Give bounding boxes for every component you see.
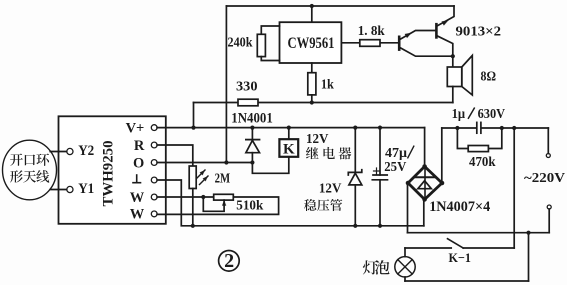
svg-text:2: 2 — [224, 250, 234, 272]
svg-text:12V: 12V — [319, 181, 342, 196]
svg-text:470k: 470k — [469, 154, 496, 169]
svg-text:1N4001: 1N4001 — [231, 110, 272, 126]
svg-text:1μ: 1μ — [452, 107, 466, 122]
svg-text:Y2: Y2 — [78, 143, 94, 159]
svg-text:K: K — [283, 142, 295, 158]
svg-text:630V: 630V — [478, 107, 506, 122]
svg-text:CW9561: CW9561 — [288, 35, 335, 52]
svg-text:1N4007×4: 1N4007×4 — [429, 199, 490, 215]
svg-text:W: W — [130, 207, 145, 223]
svg-text:TWH9250: TWH9250 — [101, 141, 117, 207]
svg-text:1. 8k: 1. 8k — [358, 24, 385, 39]
svg-text:R: R — [134, 138, 145, 154]
svg-text:8Ω: 8Ω — [481, 70, 497, 85]
svg-text:25V: 25V — [384, 160, 406, 175]
svg-text:O: O — [133, 155, 144, 171]
svg-text:Y1: Y1 — [78, 181, 94, 197]
svg-text:1k: 1k — [321, 77, 334, 92]
svg-text:240k: 240k — [228, 35, 253, 50]
svg-text:W: W — [130, 190, 145, 206]
svg-text:~220V: ~220V — [524, 171, 565, 186]
svg-text:V+: V+ — [126, 120, 145, 136]
svg-text:9013×2: 9013×2 — [456, 25, 502, 40]
svg-text:2M: 2M — [215, 172, 231, 187]
svg-text:510k: 510k — [236, 197, 263, 212]
svg-text:K−1: K−1 — [449, 250, 472, 265]
svg-text:12V: 12V — [306, 132, 329, 147]
svg-text:330: 330 — [236, 80, 258, 95]
svg-text:47μ: 47μ — [385, 146, 407, 161]
